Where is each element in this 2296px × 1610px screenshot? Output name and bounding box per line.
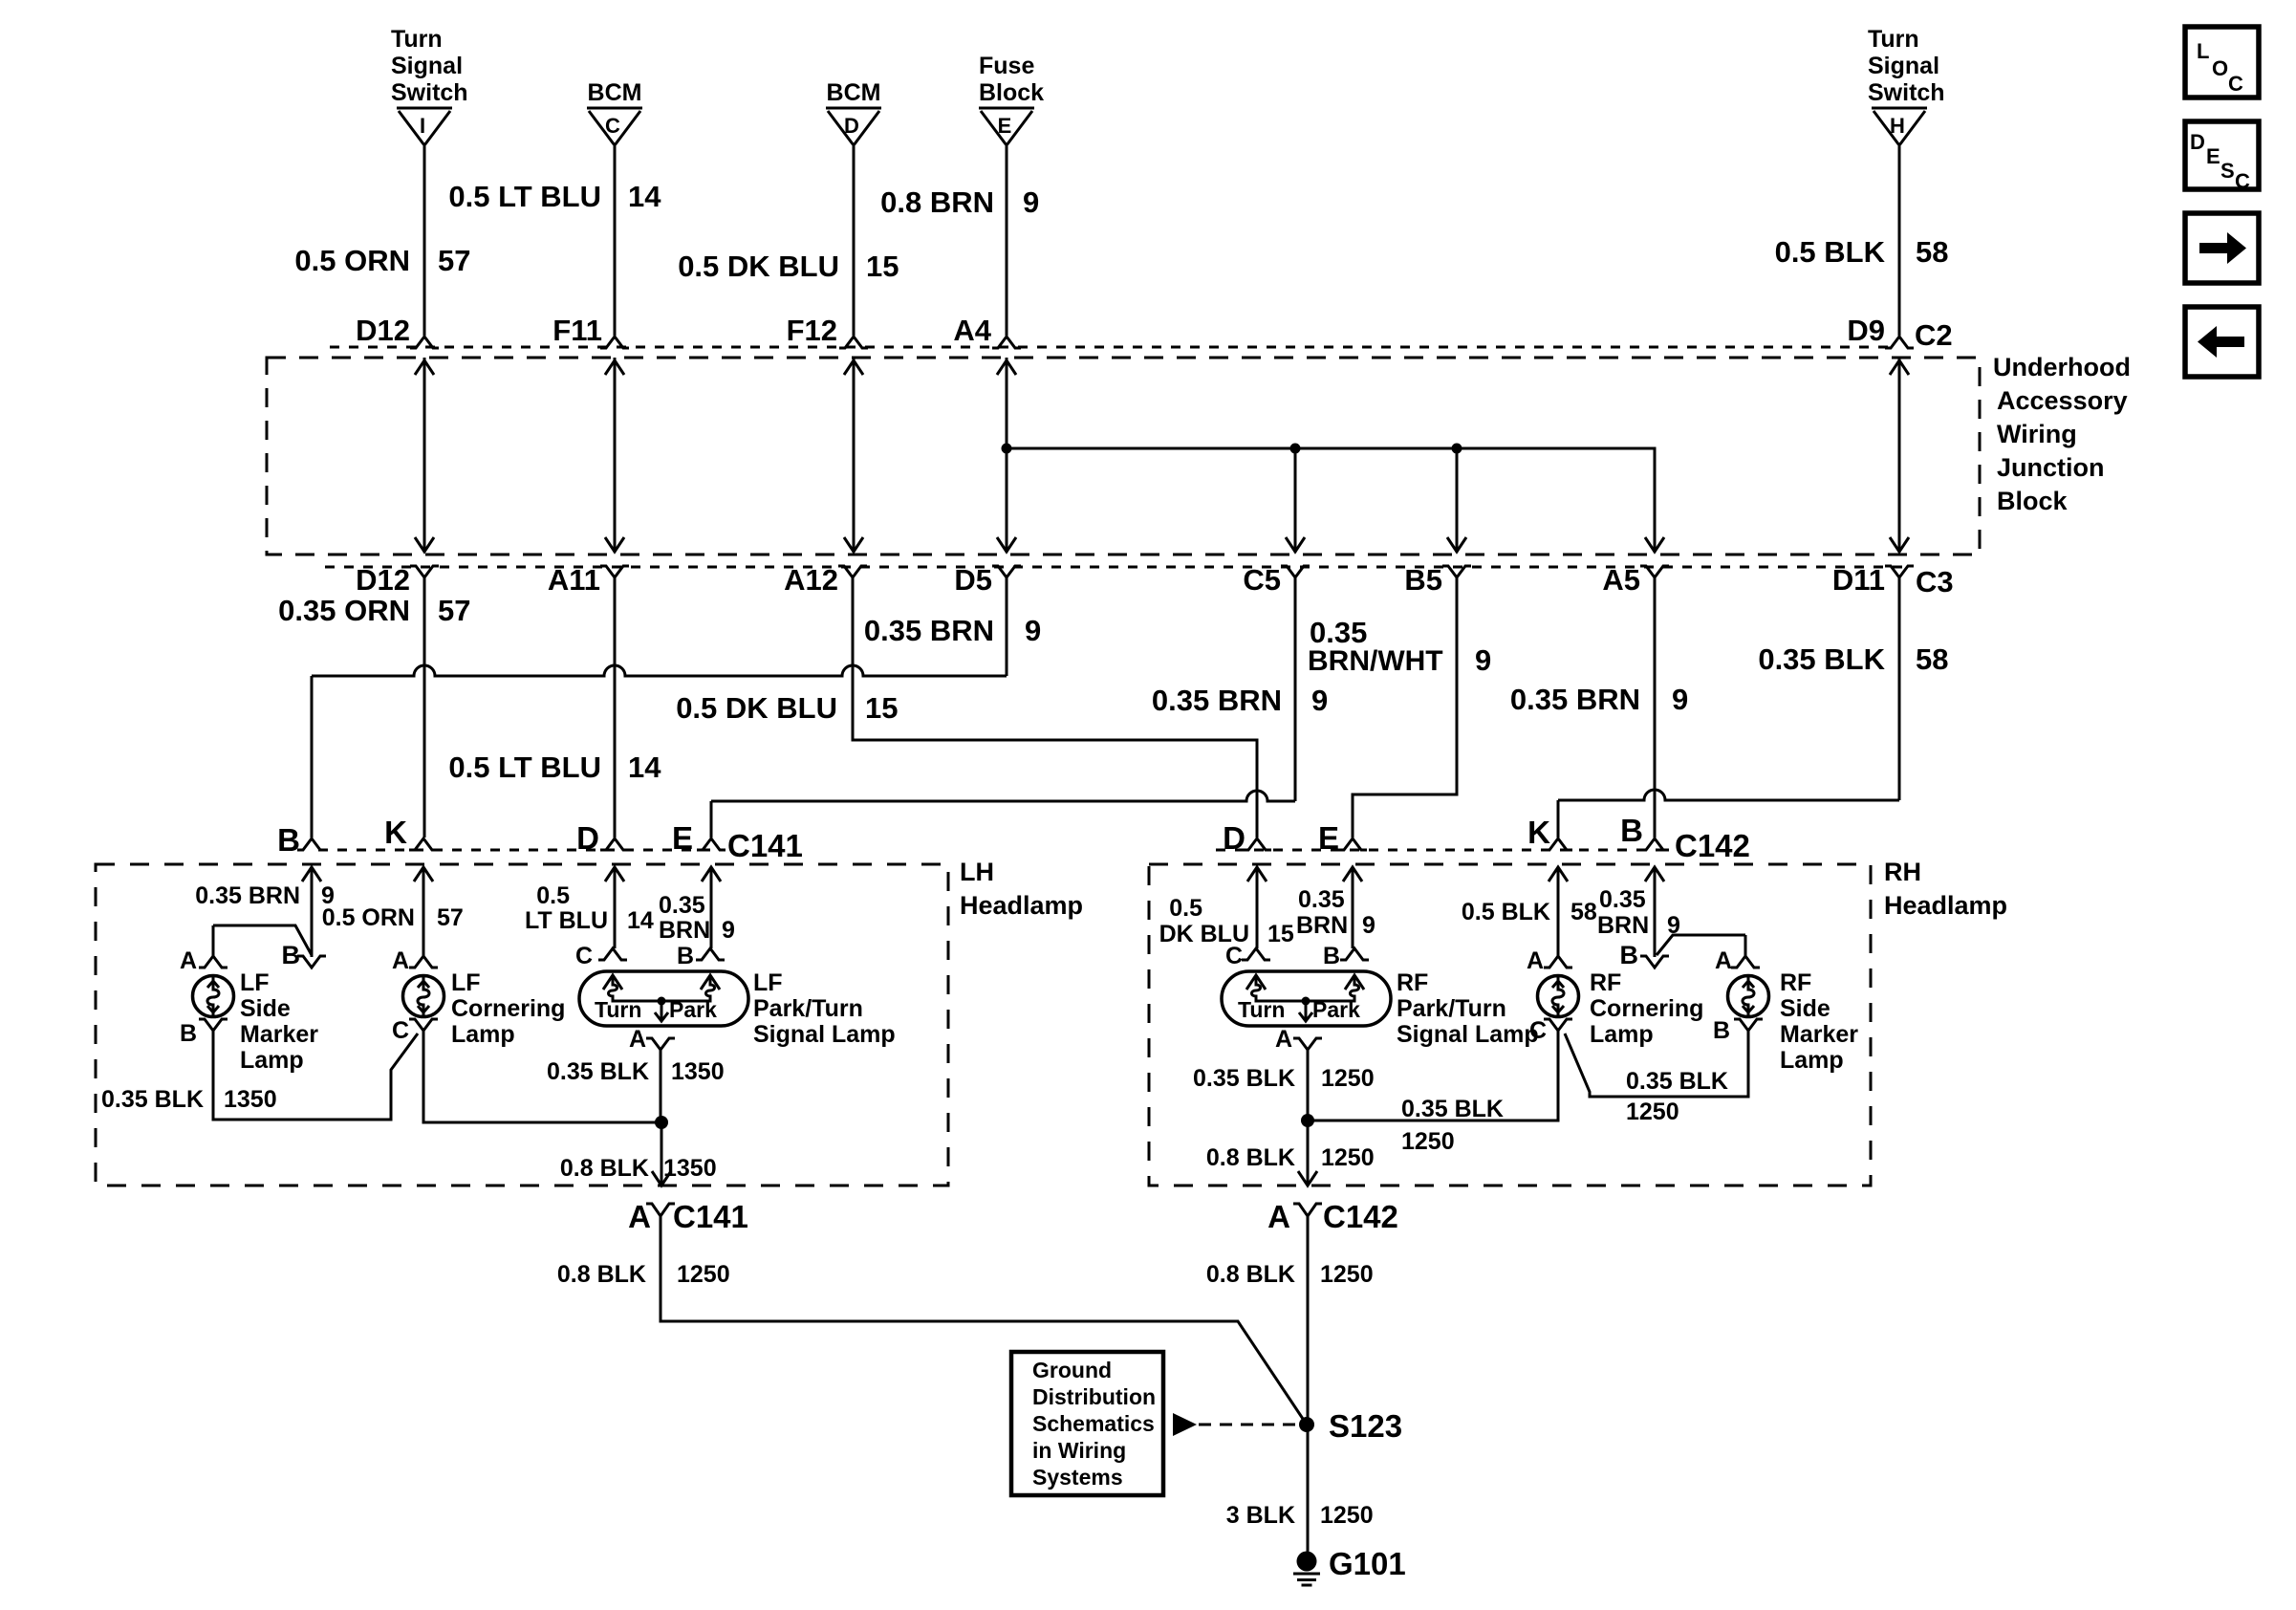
terminal D9/C2 [1885,337,1914,348]
svg-text:Lamp: Lamp [451,1021,515,1048]
svg-text:D: D [576,820,599,856]
svg-text:C142: C142 [1323,1199,1398,1234]
wire C141-D to LF park/turn C (0.5 LT BLU 14) [614,867,617,948]
svg-text:Distribution: Distribution [1032,1384,1156,1409]
svg-text:C5: C5 [1243,563,1281,597]
svg-text:0.35 BLK: 0.35 BLK [1401,1096,1504,1122]
svg-text:0.8 BRN: 0.8 BRN [880,185,994,219]
svg-text:K: K [1527,815,1550,850]
wire RF side marker A up [1744,935,1747,956]
svg-text:A: A [180,947,197,974]
wire RF cornering C ground [1312,1031,1558,1120]
up arrow D12 [415,360,434,375]
connector triangle D (BCM) [826,107,881,110]
svg-text:Headlamp: Headlamp [960,891,1083,920]
svg-text:Park: Park [669,997,717,1022]
wire A11 to C141-D (0.5 LT BLU 14) [614,577,617,838]
svg-text:D: D [2190,130,2205,154]
svg-text:C: C [575,943,593,969]
svg-text:I: I [420,114,425,138]
svg-text:D: D [1223,820,1245,856]
connector triangle C (BCM) [587,107,642,110]
pointer arrow to S123 [1173,1413,1197,1436]
svg-text:L: L [2197,39,2209,63]
svg-text:C: C [1225,943,1243,969]
wire D12 to C141-K (0.35 ORN 57) [423,577,426,838]
svg-text:1350: 1350 [671,1058,725,1085]
wire D5 drop [1006,577,1008,676]
terminal B of LF side marker [199,1019,227,1031]
svg-text:Wiring: Wiring [1997,420,2077,448]
DESC legend box [2185,121,2259,189]
svg-text:14: 14 [627,907,654,934]
terminal A of C141 [646,1204,675,1216]
svg-text:LF: LF [240,969,270,996]
svg-text:E: E [2206,144,2220,168]
wire LF side marker B ground (0.35 BLK 1350) [213,1031,418,1120]
svg-text:Underhood: Underhood [1993,353,2131,381]
terminal E of C141 [697,838,726,850]
svg-text:Side: Side [1780,995,1830,1022]
connector triangle H (Turn Signal Switch) [1872,107,1927,110]
svg-text:B: B [677,943,694,969]
svg-text:15: 15 [865,691,898,725]
branch B5 inside block [1456,448,1459,553]
Underhood Accessory Wiring Junction Block box (thick dashed) [267,358,1980,555]
svg-text:Cornering: Cornering [451,995,565,1022]
svg-text:RF: RF [1780,969,1811,996]
svg-text:9: 9 [722,917,735,944]
wire 0.5 ORN 57 from I to D12 [423,146,426,336]
svg-text:B: B [277,822,300,858]
svg-text:0.5 ORN: 0.5 ORN [294,244,410,277]
svg-text:A: A [1267,1199,1290,1234]
svg-text:1350: 1350 [663,1155,717,1182]
node at A4 column [1002,444,1012,454]
lamp RF cornering [1538,976,1579,1017]
arrow into C142-A [1298,1171,1317,1186]
svg-text:A: A [1275,1026,1292,1053]
svg-text:0.35 BLK: 0.35 BLK [547,1058,649,1085]
svg-text:Signal Lamp: Signal Lamp [753,1021,896,1048]
svg-text:58: 58 [1916,235,1948,269]
lamp LF park/turn signal (stadium) [579,971,748,1026]
wire A5 to C142-B (0.35 BRN 9) [1654,577,1657,838]
svg-text:0.8 BLK: 0.8 BLK [557,1261,646,1288]
svg-text:15: 15 [866,250,899,283]
wire C142-D to RF park/turn C (0.5 DK BLU 15) [1256,867,1259,948]
svg-text:B: B [1323,943,1340,969]
svg-text:9: 9 [1362,912,1375,939]
wire 0.8 BLK/3 BLK 1250 from C142-A to G101 [1307,1216,1310,1552]
svg-text:0.5 LT BLU: 0.5 LT BLU [448,180,601,213]
svg-text:Signal Lamp: Signal Lamp [1397,1021,1539,1048]
svg-text:0.35 ORN: 0.35 ORN [278,594,410,627]
svg-text:F12: F12 [787,314,837,347]
svg-text:0.35 BRN: 0.35 BRN [1152,684,1282,717]
svg-text:B: B [282,941,301,969]
lamp RF park/turn signal (stadium) [1222,971,1391,1026]
down arrow C5 [1286,537,1305,552]
terminal C of RF cornering [1544,1019,1572,1031]
terminal B of LF park/turn [696,948,725,960]
terminal A of LF park/turn [646,1038,675,1050]
terminal A5 (lower row) [1640,566,1669,577]
wire 0.5 BLK 58 from H to D9/C2 [1898,146,1901,336]
svg-text:A: A [629,1026,646,1053]
svg-text:E: E [998,114,1012,138]
svg-text:Lamp: Lamp [1780,1047,1844,1074]
svg-text:S123: S123 [1329,1408,1402,1444]
wire C5 drop [1294,577,1297,801]
down arrow A5 [1645,537,1664,552]
svg-text:E: E [1318,820,1339,856]
svg-text:Schematics: Schematics [1032,1411,1155,1436]
svg-text:Systems: Systems [1032,1465,1123,1490]
up arrow D5 [997,360,1016,375]
RH box entry arrow x=1630 [1549,867,1568,881]
bus wire D5 to C141-B (0.35 BRN 9) [312,665,1007,676]
wire B5 to C142-E (0.35 BRN/WHT 9) [1353,577,1457,838]
node at C5 column [1290,444,1301,454]
svg-text:C: C [392,1017,409,1044]
svg-text:F11: F11 [552,314,602,347]
svg-text:0.8 BLK: 0.8 BLK [1206,1261,1295,1288]
lamp RF side marker [1728,976,1769,1017]
RH box entry arrow x=1315 [1247,867,1267,881]
svg-text:1250: 1250 [1320,1261,1374,1288]
inline terminal B at LF side marker [297,956,326,968]
down arrow A12 [844,537,863,552]
terminal E of C142 [1338,838,1367,850]
down arrow A11 [605,537,624,552]
svg-text:0.35 BRN: 0.35 BRN [864,614,994,647]
svg-text:0.8 BLK: 0.8 BLK [1206,1144,1295,1171]
svg-text:0.35 BLK: 0.35 BLK [1193,1065,1295,1092]
svg-text:D12: D12 [356,563,410,597]
wire 0.5 DK BLU 15 from D to F12 [853,146,856,336]
wire C142-E to RF park/turn B (0.35 BRN 9) [1352,867,1354,948]
svg-text:0.35 BLK: 0.35 BLK [101,1086,204,1113]
RF park/turn common leg [1305,1001,1308,1019]
right arrow legend box [2185,213,2259,283]
splice S123 [1299,1417,1314,1432]
svg-text:BCM: BCM [827,79,881,106]
wire D11 drop (0.35 BLK 58) [1898,577,1901,800]
svg-text:BRN/WHT: BRN/WHT [1308,645,1443,677]
terminal B of C142 [1640,838,1669,850]
RF park/turn internal filaments [1252,975,1307,1001]
node center of LF park/turn [658,997,666,1006]
wire 0.8 BLK 1350 to C141-A [661,1122,663,1184]
wire C142-K to RF cornering A (0.5 BLK 58) [1557,867,1560,956]
wire LF park/turn A ground (0.35 BLK 1350) [660,1050,662,1122]
C142 connector dashed line [1216,849,1668,852]
wire 0.8 BRN 9 from E to A4 [1006,146,1008,336]
svg-text:1250: 1250 [1626,1099,1679,1125]
svg-text:C142: C142 [1675,828,1750,863]
terminal A of RF cornering [1544,956,1572,968]
svg-text:D11: D11 [1832,563,1885,597]
connector triangle I (Turn Signal Switch) [397,107,452,110]
terminal D of C142 [1243,838,1271,850]
node RH ground junction [1301,1114,1314,1127]
svg-text:Fuse: Fuse [979,53,1034,79]
svg-text:0.5 BLK: 0.5 BLK [1775,235,1886,269]
terminal A12 (lower row) [838,566,867,577]
LH box entry arrow x=643 [605,867,624,881]
svg-text:Park/Turn: Park/Turn [753,995,863,1022]
svg-text:Signal: Signal [1868,53,1939,79]
svg-text:1250: 1250 [1321,1144,1375,1171]
wire C5 to C141-E (0.35 BRN 9) [711,791,1295,801]
svg-text:A: A [1715,947,1732,974]
svg-text:0.8 BLK: 0.8 BLK [560,1155,649,1182]
svg-text:D9: D9 [1847,314,1885,347]
svg-text:0.35: 0.35 [1298,886,1345,913]
junction block pass-through wire D5 [1006,358,1008,553]
svg-text:9: 9 [1025,614,1041,647]
LH box entry arrow x=744 [702,867,721,881]
svg-text:C2: C2 [1915,318,1953,352]
svg-text:1250: 1250 [1320,1502,1374,1529]
RH box entry arrow x=1415 [1343,867,1362,881]
svg-text:A5: A5 [1602,563,1640,597]
svg-text:C: C [605,114,620,138]
terminal F12 [839,337,868,348]
svg-text:9: 9 [1311,684,1328,717]
svg-text:0.5 ORN: 0.5 ORN [322,904,415,931]
lower connector thin dashed line [325,566,1902,569]
svg-text:Accessory: Accessory [1997,386,2128,415]
svg-text:O: O [2212,56,2228,80]
svg-text:Lamp: Lamp [1590,1021,1654,1048]
up arrow A11 [605,360,624,375]
LF park/turn internal filaments [609,975,662,1001]
node center of RF park/turn [1302,997,1310,1006]
wire LF side marker A up [212,925,215,956]
svg-text:1250: 1250 [1321,1065,1375,1092]
junction block pass-through wire A11 [614,358,617,553]
svg-text:D12: D12 [356,314,410,347]
wire A12 to C142-D (0.5 DK BLU 15) [853,577,1257,838]
svg-text:BRN: BRN [659,917,710,944]
terminal A4 [992,337,1021,348]
svg-text:in Wiring: in Wiring [1032,1438,1126,1463]
svg-text:0.5: 0.5 [1169,895,1202,922]
terminal B of RF park/turn [1340,948,1369,960]
svg-text:Headlamp: Headlamp [1884,891,2007,920]
svg-text:C141: C141 [673,1199,748,1234]
svg-text:A11: A11 [548,563,600,597]
svg-text:14: 14 [628,751,661,784]
svg-text:0.35 BRN: 0.35 BRN [195,882,300,909]
filament arrow turn LF [603,975,622,990]
terminal D5 (lower row) [992,566,1021,577]
svg-text:0.5 BLK: 0.5 BLK [1462,899,1550,925]
terminal D12 (top row) [410,337,439,348]
svg-text:Ground: Ground [1032,1358,1112,1382]
LOC legend box [2185,27,2259,98]
terminal B of RF side marker [1734,1019,1763,1031]
node at B5 column [1452,444,1462,454]
dashed pointer line [1199,1424,1298,1426]
svg-text:C: C [2228,72,2243,96]
svg-text:0.35: 0.35 [1599,886,1646,913]
wire drop to C142-K [1557,800,1560,838]
svg-text:Signal: Signal [391,53,463,79]
svg-text:K: K [384,815,407,850]
svg-text:Block: Block [1997,487,2069,515]
svg-text:0.5 LT BLU: 0.5 LT BLU [448,751,601,784]
terminal A of LF cornering [409,956,438,968]
svg-text:RH: RH [1884,858,1921,886]
LH box entry arrow x=443 [414,867,433,881]
svg-text:0.5: 0.5 [536,882,570,909]
wire RF park/turn A ground (0.35 BLK 1250) [1307,1050,1310,1120]
svg-text:0.35: 0.35 [659,892,705,919]
svg-text:1250: 1250 [1401,1128,1455,1155]
ground G101 symbol dot [1297,1552,1317,1572]
svg-text:Junction: Junction [1997,453,2105,482]
lamp LF side marker [193,976,234,1017]
terminal D of C141 [600,838,629,850]
RH Headlamp box (dashed) [1149,864,1871,1186]
wire C141-K to LF cornering A (0.5 ORN 57) [422,867,425,956]
svg-text:0.5 DK BLU: 0.5 DK BLU [678,250,839,283]
terminal A of LF side marker [199,956,227,968]
svg-text:A: A [628,1199,651,1234]
svg-text:Turn: Turn [1868,26,1919,53]
svg-text:Block: Block [979,79,1044,106]
svg-text:BCM: BCM [588,79,642,106]
down arrow D12 [415,537,434,552]
RH box entry arrow x=1731 [1645,867,1664,881]
wire LF cornering C ground [423,1031,657,1122]
internal bus from A4 to C5/B5/A5 [1007,448,1655,553]
svg-text:58: 58 [1916,642,1948,676]
wire C141-B to splice (0.35 BRN 9) [311,867,314,957]
left arrow legend box [2185,307,2259,377]
terminal D12 (lower row) [410,566,439,577]
svg-text:Park: Park [1312,997,1360,1022]
svg-text:LF: LF [753,969,783,996]
svg-text:14: 14 [628,180,661,213]
svg-text:Side: Side [240,995,291,1022]
junction block pass-through wire D11 [1898,358,1901,553]
svg-text:1250: 1250 [677,1261,730,1288]
Ground Distribution Schematics in Wiring Systems box [1011,1352,1163,1495]
svg-text:LT BLU: LT BLU [525,907,608,934]
svg-text:58: 58 [1570,899,1597,925]
junction block pass-through wire A12 [853,358,856,553]
svg-text:Park/Turn: Park/Turn [1397,995,1506,1022]
lamp LF cornering [403,976,444,1017]
terminal B of C141 [297,838,326,850]
wire C142-B to splice (0.35 BRN 9) [1654,867,1657,957]
terminal A of RF side marker [1731,956,1760,968]
LH Headlamp box (dashed) [96,864,948,1186]
svg-text:RF: RF [1397,969,1428,996]
terminal C of RF park/turn [1242,948,1270,960]
terminal C of LF cornering [409,1019,438,1031]
svg-text:C: C [2235,169,2250,193]
wire C141-E to LF park/turn B (0.35 BRN 9) [710,867,713,948]
LH box entry arrow x=326 [302,867,321,881]
svg-text:B: B [180,1020,197,1047]
filament arrow turn RF [1246,975,1266,990]
svg-text:LH: LH [960,858,994,886]
terminal A of C142 [1293,1204,1322,1216]
svg-text:9: 9 [1475,643,1491,677]
svg-text:Marker: Marker [1780,1021,1858,1048]
svg-text:S: S [2220,159,2235,183]
wire 0.5 LT BLU 14 from C to F11 [614,146,617,336]
top connector thin dashed line [330,346,1890,349]
wire drop to C141-E [710,801,713,838]
wire LF side marker A to B splice [213,925,312,955]
svg-text:A4: A4 [953,314,991,347]
terminal B5 (lower row) [1442,566,1471,577]
right arrow icon [2199,232,2246,264]
svg-text:0.35 BRN: 0.35 BRN [1510,683,1640,716]
svg-text:A: A [392,947,409,974]
svg-text:B: B [1713,1017,1730,1044]
svg-text:LF: LF [451,969,481,996]
terminal A of RF park/turn [1293,1038,1322,1050]
svg-text:G101: G101 [1329,1546,1406,1581]
svg-text:57: 57 [438,594,470,627]
svg-text:RF: RF [1590,969,1621,996]
junction block pass-through wire D12 [423,358,426,553]
svg-text:9: 9 [1023,185,1039,219]
wire RF side marker B ground (0.35 BLK 1250) [1565,1031,1748,1097]
svg-text:0.35 BLK: 0.35 BLK [1626,1068,1728,1095]
svg-text:B5: B5 [1404,563,1442,597]
svg-text:D5: D5 [954,563,992,597]
filament arrow park RF [1345,975,1364,990]
down arrow D11 [1890,537,1909,552]
svg-text:C141: C141 [727,828,803,863]
svg-text:B: B [1620,941,1639,969]
svg-text:3 BLK: 3 BLK [1226,1502,1295,1529]
node LH ground junction [655,1116,668,1129]
svg-text:E: E [672,820,693,856]
svg-text:57: 57 [438,244,470,277]
terminal C of LF park/turn [598,948,627,960]
svg-text:Turn: Turn [391,26,443,53]
svg-text:Marker: Marker [240,1021,318,1048]
svg-text:BRN: BRN [1296,912,1348,939]
svg-text:9: 9 [1672,683,1688,716]
branch C5 inside block [1294,448,1297,553]
svg-text:C: C [1529,1017,1547,1044]
svg-text:0.35: 0.35 [1310,616,1367,649]
wire 0.8 BLK 1250 from C141-A to S123 [661,1216,1307,1425]
terminal K of C142 [1544,838,1572,850]
svg-text:A12: A12 [784,563,838,597]
svg-text:H: H [1890,114,1905,138]
svg-text:Switch: Switch [391,79,468,106]
svg-text:Turn: Turn [595,997,641,1022]
arrow into C141-A [652,1171,671,1186]
wire to C141-B [311,676,314,838]
wire RF side marker A to B splice [1657,935,1745,955]
svg-text:15: 15 [1267,921,1294,947]
down arrow D5 [997,537,1016,552]
svg-text:D: D [844,114,859,138]
svg-text:0.5 DK BLU: 0.5 DK BLU [676,691,837,725]
